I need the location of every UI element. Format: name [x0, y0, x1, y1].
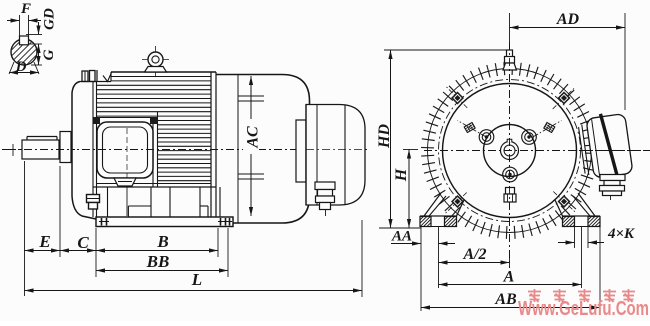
- svg-text:G: G: [41, 49, 57, 60]
- svg-text:L: L: [191, 270, 202, 289]
- svg-text:AD: AD: [556, 11, 580, 28]
- svg-text:BB: BB: [146, 252, 170, 271]
- svg-text:AB: AB: [494, 291, 517, 308]
- svg-text:GD: GD: [42, 8, 58, 30]
- svg-text:Www.GeLufu.Com: Www.GeLufu.Com: [518, 297, 649, 320]
- svg-text:E: E: [38, 232, 50, 251]
- svg-text:B: B: [156, 232, 168, 251]
- svg-text:AC: AC: [245, 126, 262, 149]
- svg-text:F: F: [20, 1, 31, 17]
- svg-text:C: C: [77, 233, 89, 252]
- svg-text:D: D: [15, 59, 27, 75]
- svg-text:A: A: [503, 269, 515, 286]
- svg-text:A/2: A/2: [462, 246, 486, 263]
- svg-text:H: H: [393, 168, 410, 182]
- svg-text:4×K: 4×K: [607, 226, 635, 242]
- svg-text:HD: HD: [376, 124, 393, 149]
- svg-text:AA: AA: [391, 229, 412, 245]
